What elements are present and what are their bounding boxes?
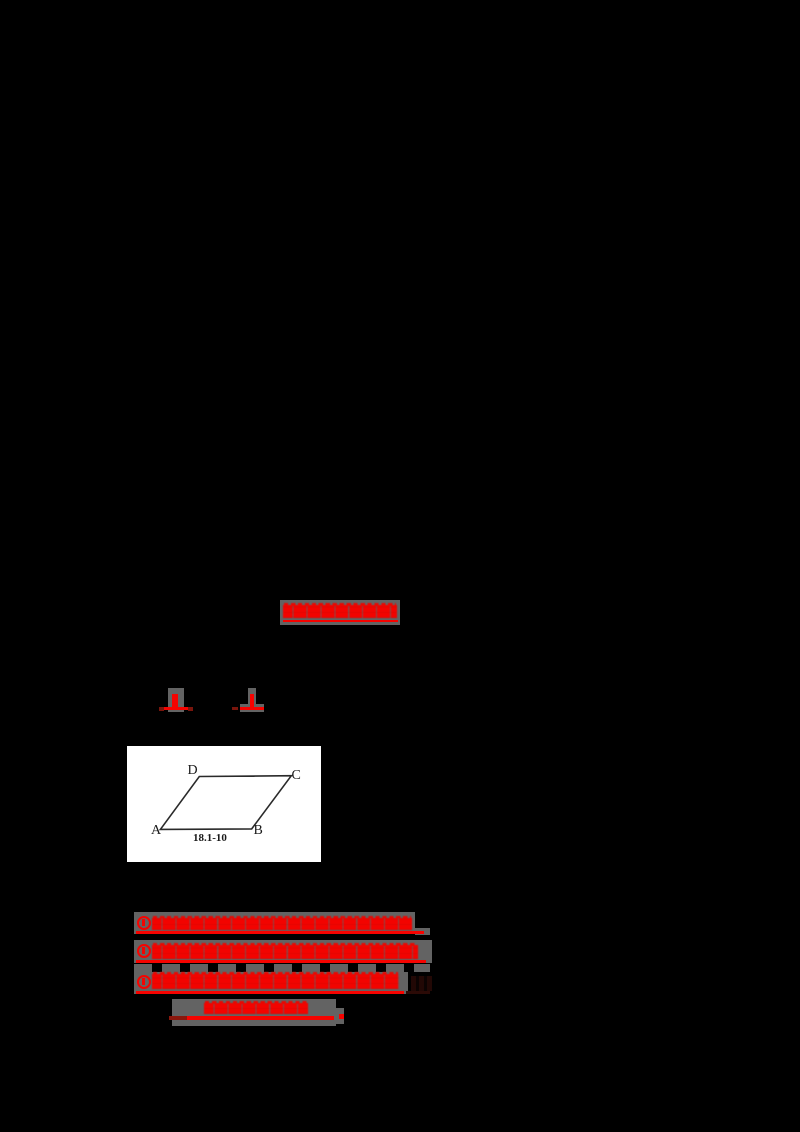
perpendicular symbol 1 dark left end <box>159 707 165 711</box>
vertex label A <box>151 823 165 836</box>
perpendicular symbol 2 horizontal bar <box>240 707 264 710</box>
parallelogram outline <box>160 775 291 829</box>
list line 3 faint dark tail underline <box>406 991 430 994</box>
list line 3 underline <box>136 991 404 994</box>
list line 4 period dot <box>339 1014 344 1019</box>
perpendicular symbol 1 dark right end <box>188 707 193 711</box>
list line 4 red text bar <box>204 1001 308 1015</box>
list line 2 circled number <box>137 944 151 958</box>
list line 2 underline <box>136 960 426 963</box>
list line 1 highlight <box>134 912 415 934</box>
list line 3 highlight <box>134 972 408 994</box>
list line 4 period highlight <box>336 1008 344 1024</box>
perpendicular symbol 2 highlight column <box>248 688 256 704</box>
perpendicular symbol 1 highlight <box>168 688 184 712</box>
list line 3 red text bar <box>152 972 399 989</box>
list line 1 circled number <box>137 916 151 930</box>
perpendicular symbol 1 horizontal bar <box>164 707 188 710</box>
title red bold text (simulated CJK) <box>283 603 397 619</box>
perpendicular symbol 1 vertical stroke <box>172 694 178 707</box>
parallelogram ABCD figure <box>127 746 321 863</box>
title underline <box>283 620 398 623</box>
vertex label D <box>188 763 202 776</box>
perpendicular symbol 2 highlight base <box>240 704 264 712</box>
list line 4 highlight <box>172 999 336 1026</box>
figure white box <box>127 746 321 863</box>
list line 1 red text bar <box>152 916 412 930</box>
figure caption 18.1-10 <box>193 832 227 843</box>
list line 2 red text bar <box>152 943 418 959</box>
vertex label B <box>254 823 268 836</box>
list line 4 underline <box>187 1016 334 1020</box>
title highlight box <box>280 600 400 625</box>
list line 1 underline <box>136 931 424 934</box>
list line 4 underline dark left extension <box>169 1016 187 1020</box>
perpendicular symbol 2 vertical stroke <box>250 694 254 707</box>
vertex label C <box>292 768 306 781</box>
list line 2 highlight <box>134 940 432 964</box>
list line 3 circled number <box>137 975 151 989</box>
list line 1 highlight step right <box>415 928 430 935</box>
perpendicular symbol 2 dark left dot <box>232 707 238 710</box>
segmented highlight band between lines 2 and 3 <box>134 964 430 972</box>
list line 3 faint dark tail text <box>411 976 432 991</box>
